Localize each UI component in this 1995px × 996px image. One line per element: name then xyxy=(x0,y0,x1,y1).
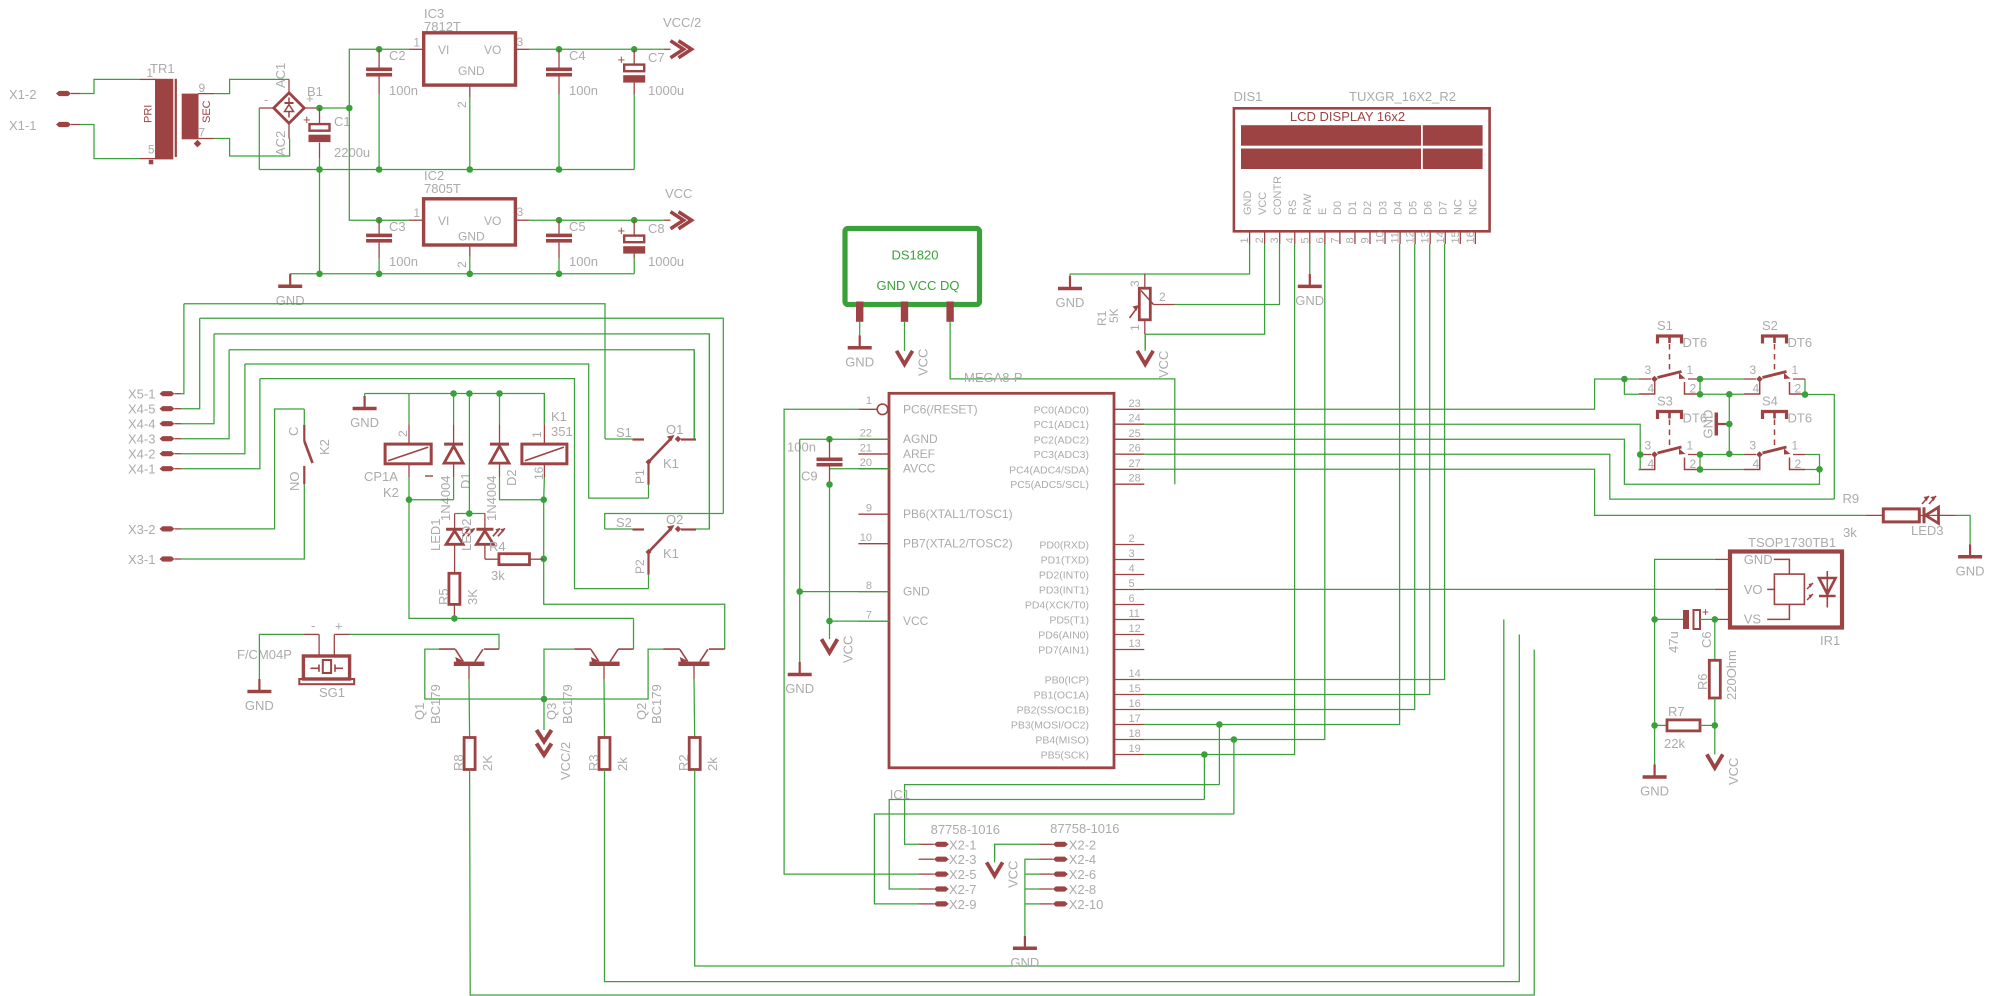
LCD pin 1 GND xyxy=(1249,231,1251,244)
pin 17 stub xyxy=(1114,724,1144,726)
buzzer SG1 xyxy=(304,633,319,635)
resistor R8 xyxy=(464,738,475,770)
connector pin X4-5 xyxy=(160,406,175,411)
connector pin X4-2 xyxy=(160,451,175,456)
svg-text:PB2(SS/OC1B): PB2(SS/OC1B) xyxy=(1017,705,1089,717)
junction xyxy=(466,510,473,517)
svg-text:14: 14 xyxy=(1129,668,1141,680)
svg-text:100n: 100n xyxy=(389,83,418,98)
wire X3-1 to K2 NO xyxy=(181,484,304,559)
svg-text:2k: 2k xyxy=(615,757,630,771)
wire PC0 to S1 xyxy=(1144,379,1624,409)
junction GND pin8 xyxy=(796,588,803,595)
supply arrow VCC TSOP xyxy=(1714,725,1716,754)
wire Q2 emitter xyxy=(544,649,664,699)
svg-text:7: 7 xyxy=(866,610,872,622)
wire X4-1 xyxy=(181,379,260,469)
svg-text:D2: D2 xyxy=(1362,201,1374,215)
svg-text:GND: GND xyxy=(845,354,874,369)
junction C8 top xyxy=(631,217,638,224)
connector pin X1-2 xyxy=(56,91,71,96)
junction xyxy=(1726,451,1733,458)
svg-text:220Ohm: 220Ohm xyxy=(1724,650,1739,700)
svg-text:S2: S2 xyxy=(616,515,632,530)
svg-text:C7: C7 xyxy=(648,50,665,65)
capacitor C5 xyxy=(558,220,560,233)
svg-text:1: 1 xyxy=(1128,324,1142,331)
svg-text:3K: 3K xyxy=(465,589,480,605)
svg-text:87758-1016: 87758-1016 xyxy=(931,822,1000,837)
svg-text:R8: R8 xyxy=(451,754,466,771)
resistor R2 xyxy=(689,738,700,770)
wire net X4-1 run xyxy=(260,379,649,589)
connector pin X1-1 xyxy=(56,122,71,127)
pin TSOP VO xyxy=(1715,588,1730,590)
svg-text:3: 3 xyxy=(1750,439,1757,453)
svg-text:Q2: Q2 xyxy=(634,703,649,720)
svg-text:E: E xyxy=(1317,208,1329,215)
pin 19 stub xyxy=(1114,754,1144,756)
svg-text:15: 15 xyxy=(1450,231,1462,243)
junction MOSI xyxy=(1216,721,1223,728)
svg-text:9: 9 xyxy=(866,503,872,515)
svg-text:6: 6 xyxy=(1314,237,1326,243)
junction xyxy=(316,166,323,173)
svg-text:PD5(T1): PD5(T1) xyxy=(1049,615,1089,627)
svg-text:PD6(AIN0): PD6(AIN0) xyxy=(1038,630,1089,642)
wire X2 ground column xyxy=(1025,859,1040,936)
svg-text:P1: P1 xyxy=(633,469,647,484)
transistor Q3 BC179 xyxy=(618,648,633,650)
pin 9 stub xyxy=(858,513,889,515)
pin 26 stub xyxy=(1114,453,1144,455)
svg-text:VCC/2: VCC/2 xyxy=(663,15,701,30)
svg-text:R5: R5 xyxy=(436,588,451,605)
wire S3 right jumper xyxy=(1699,455,1701,470)
svg-text:12: 12 xyxy=(1405,231,1417,243)
svg-text:1: 1 xyxy=(1792,363,1799,377)
wire AVCC to C9 xyxy=(830,468,890,470)
wire O1 riser xyxy=(693,350,695,439)
svg-text:AVCC: AVCC xyxy=(903,462,936,476)
svg-text:8: 8 xyxy=(866,580,872,592)
voltage regulator IC2 7805T xyxy=(409,219,424,221)
wire buzzer plus to Q1 xyxy=(350,634,499,649)
ground symbol power xyxy=(289,274,291,287)
pin 1 PC6/RESET circle xyxy=(877,404,888,415)
connector pin X4-1 xyxy=(160,466,175,471)
wire net X4-3 run xyxy=(229,350,694,439)
svg-text:S4: S4 xyxy=(1762,394,1778,409)
svg-text:C5: C5 xyxy=(569,219,586,234)
svg-text:S3: S3 xyxy=(1657,394,1673,409)
svg-text:15: 15 xyxy=(1129,683,1141,695)
svg-text:DS1820: DS1820 xyxy=(892,248,939,263)
junction xyxy=(541,696,548,703)
svg-text:Q3: Q3 xyxy=(544,703,559,720)
wire GND riser buttons xyxy=(1728,394,1730,454)
svg-text:GND: GND xyxy=(903,585,930,599)
svg-text:1: 1 xyxy=(530,431,544,438)
connector pin X2-4 xyxy=(1053,857,1068,862)
svg-text:47u: 47u xyxy=(1666,631,1681,653)
svg-text:R2: R2 xyxy=(676,754,691,771)
svg-text:DT6: DT6 xyxy=(1683,335,1708,350)
LCD pin 3 CONTR xyxy=(1279,231,1281,244)
connector pin X2-6 xyxy=(1053,872,1068,877)
pin 21 stub xyxy=(858,453,889,455)
pin 18 stub xyxy=(1114,739,1144,741)
wire MISO drop xyxy=(1233,740,1235,815)
svg-text:CP1A: CP1A xyxy=(364,469,398,484)
wire S1 jumper xyxy=(1624,378,1638,380)
svg-text:BC179: BC179 xyxy=(649,684,664,724)
wire GND rails link xyxy=(319,170,321,274)
svg-text:1: 1 xyxy=(866,395,872,407)
pin 7 stub xyxy=(858,620,889,622)
svg-text:PB5(SCK): PB5(SCK) xyxy=(1041,750,1089,762)
svg-text:VCC: VCC xyxy=(1726,758,1741,785)
junction raw DC xyxy=(346,105,353,112)
svg-text:VCC: VCC xyxy=(665,186,692,201)
svg-text:PD2(INT0): PD2(INT0) xyxy=(1039,570,1089,582)
LCD pin 11 D4 xyxy=(1399,231,1401,244)
svg-text:PD1(TXD): PD1(TXD) xyxy=(1041,555,1089,567)
sensor DS1820 xyxy=(845,229,980,305)
wire VI rail to IC3 pin1 xyxy=(379,48,409,50)
wire PC1 to S3 xyxy=(1144,424,1640,454)
svg-text:3k: 3k xyxy=(1843,525,1857,540)
junction xyxy=(406,496,413,503)
wire LCD pin11 D4 to PB3 xyxy=(1144,244,1399,725)
wire D1 bottom row xyxy=(409,499,454,501)
ground symbol LED3 xyxy=(1969,544,1971,557)
svg-text:VCC: VCC xyxy=(916,349,931,376)
wire LCD pin3 CONTR to R1 wiper xyxy=(1174,244,1279,305)
svg-text:R9: R9 xyxy=(1843,491,1860,506)
connector pin X2-10 xyxy=(1053,901,1068,906)
LCD pin 16 NC xyxy=(1474,231,1476,244)
svg-text:8: 8 xyxy=(1344,237,1356,243)
wire RESET to X2-5 xyxy=(784,409,919,874)
ground symbol DS1820 xyxy=(859,335,861,348)
svg-text:LED3: LED3 xyxy=(1911,523,1944,538)
connector pin X3-1 xyxy=(160,556,175,561)
svg-text:3: 3 xyxy=(1750,363,1757,377)
junction xyxy=(540,496,547,503)
junction C5 top xyxy=(556,217,563,224)
wire pin8 gnd xyxy=(800,591,889,593)
svg-text:2: 2 xyxy=(455,261,469,268)
svg-text:SG1: SG1 xyxy=(319,685,345,700)
pin 10 stub xyxy=(858,543,889,545)
svg-text:PC2(ADC2): PC2(ADC2) xyxy=(1034,434,1089,446)
svg-text:16: 16 xyxy=(1465,231,1477,243)
wire S2 pin2 to PC3 net xyxy=(1805,395,1834,500)
junction xyxy=(826,481,833,488)
svg-text:3: 3 xyxy=(517,35,524,49)
wire X1-1 to TR1 pin5 xyxy=(80,125,140,159)
wire R1 pin1 vcc xyxy=(1144,334,1146,349)
svg-text:C2: C2 xyxy=(389,48,406,63)
svg-text:351: 351 xyxy=(551,424,573,439)
svg-text:1: 1 xyxy=(1687,439,1694,453)
svg-text:MEGA8-P: MEGA8-P xyxy=(964,370,1023,385)
wire K1 net down to Q2 xyxy=(544,500,725,649)
svg-text:1: 1 xyxy=(413,36,420,50)
svg-text:GND: GND xyxy=(1010,955,1039,970)
svg-text:F/CM04P: F/CM04P xyxy=(237,647,292,662)
wire SCK drop xyxy=(1203,755,1205,800)
pin TSOP VS xyxy=(1715,618,1730,620)
svg-text:X4-5: X4-5 xyxy=(128,402,155,417)
svg-text:VCC: VCC xyxy=(1156,351,1171,378)
svg-text:RS: RS xyxy=(1287,200,1299,215)
ground symbol buzzer xyxy=(258,679,260,692)
LCD pin 10 D3 xyxy=(1384,231,1386,244)
supply arrow VCC MCU xyxy=(829,621,831,639)
svg-text:PC1(ADC1): PC1(ADC1) xyxy=(1034,419,1089,431)
pin 25 stub xyxy=(1114,438,1144,440)
wire AREF stub xyxy=(858,453,889,455)
svg-text:+: + xyxy=(618,223,626,238)
svg-text:VCC: VCC xyxy=(841,636,856,663)
ground symbol relay rail xyxy=(364,394,366,397)
svg-text:19: 19 xyxy=(1129,743,1141,755)
svg-text:3: 3 xyxy=(1128,280,1142,287)
svg-text:2: 2 xyxy=(455,101,469,108)
svg-text:D4: D4 xyxy=(1392,201,1404,215)
connector pin X2-3 xyxy=(934,857,949,862)
svg-text:NO: NO xyxy=(287,472,302,492)
svg-text:4: 4 xyxy=(1284,237,1296,243)
svg-text:DT6: DT6 xyxy=(1788,411,1813,426)
svg-text:VCC: VCC xyxy=(1257,192,1269,215)
svg-text:X4-1: X4-1 xyxy=(128,462,155,477)
svg-text:TR1: TR1 xyxy=(150,61,175,76)
svg-text:X2-2: X2-2 xyxy=(1069,837,1096,852)
svg-text:GND: GND xyxy=(1744,552,1773,567)
svg-text:PB6(XTAL1/TOSC1): PB6(XTAL1/TOSC1) xyxy=(903,507,1013,521)
svg-text:VCC/2: VCC/2 xyxy=(558,742,573,780)
svg-text:100n: 100n xyxy=(389,254,418,269)
capacitor C6 xyxy=(1655,618,1683,620)
transistor Q1 BC179 xyxy=(484,648,499,650)
svg-text:S1: S1 xyxy=(616,425,632,440)
svg-text:D3: D3 xyxy=(1377,201,1389,215)
svg-text:TUXGR_16X2_R2: TUXGR_16X2_R2 xyxy=(1349,89,1456,104)
svg-text:PC6(/RESET): PC6(/RESET) xyxy=(903,402,978,416)
svg-text:GND: GND xyxy=(458,64,485,78)
wire S1 right jumper xyxy=(1700,379,1744,394)
svg-text:IR1: IR1 xyxy=(1820,633,1840,648)
wire S4 pin1 drop xyxy=(1805,455,1820,470)
LCD pin 15 NC xyxy=(1459,231,1461,244)
svg-text:24: 24 xyxy=(1129,413,1141,425)
svg-text:22: 22 xyxy=(860,428,872,440)
wire LCD pin12 D5 to PB2 xyxy=(1144,244,1414,710)
connector pin X2-5 xyxy=(934,872,949,877)
svg-text:1: 1 xyxy=(146,66,153,80)
wire X2-7 to SCK xyxy=(889,800,1204,890)
potentiometer R1 5K xyxy=(1144,274,1146,288)
resistor R7 xyxy=(1655,724,1667,726)
svg-text:17: 17 xyxy=(1129,713,1141,725)
resistor R4 xyxy=(485,558,499,560)
wire LCD pin13 D6 to PB1 xyxy=(1144,244,1429,695)
wire DS1820 DQ to PC5 xyxy=(950,322,1175,484)
svg-text:11: 11 xyxy=(1390,232,1402,243)
pin 6 stub xyxy=(1114,604,1144,606)
svg-text:X2-7: X2-7 xyxy=(949,882,976,897)
wire Q3 emitter xyxy=(544,649,574,699)
svg-text:K1: K1 xyxy=(663,546,679,561)
wire raw DC up to IC3 VI rail xyxy=(349,49,379,108)
wire Q2 base to R2 xyxy=(693,679,696,737)
svg-text:X3-1: X3-1 xyxy=(128,552,155,567)
svg-text:18: 18 xyxy=(1129,728,1141,740)
wire LCD pin2 VCC to R1 xyxy=(1145,244,1264,334)
connector pin X4-3 xyxy=(160,436,175,441)
svg-text:PD0(RXD): PD0(RXD) xyxy=(1039,540,1089,552)
resistor R9 xyxy=(1866,514,1883,516)
svg-text:X4-2: X4-2 xyxy=(128,447,155,462)
svg-text:5: 5 xyxy=(148,143,155,157)
junction VCC pin7 xyxy=(826,618,833,625)
svg-text:CONTR: CONTR xyxy=(1272,176,1284,215)
pin 14 stub xyxy=(1114,679,1144,681)
wire X3-2 to K2 C xyxy=(181,409,304,529)
wire IC2 GND pin2 to rail xyxy=(469,257,471,274)
junction xyxy=(1697,451,1704,458)
svg-text:X2-10: X2-10 xyxy=(1069,897,1104,912)
svg-text:PB1(OC1A): PB1(OC1A) xyxy=(1034,690,1089,702)
wire B1 minus to GND rail xyxy=(258,108,260,170)
svg-text:GND: GND xyxy=(1295,293,1324,308)
junction xyxy=(450,390,457,397)
junction xyxy=(556,166,563,173)
wire Q1 emitter xyxy=(425,649,544,699)
supply arrow VCC/2 transistors xyxy=(543,699,545,730)
pin 4 stub xyxy=(1114,574,1144,576)
connector pin X5-1 xyxy=(160,391,175,396)
wire net X4-4 run xyxy=(214,334,709,529)
wire S3 jumper xyxy=(1639,455,1641,470)
svg-text:X2-3: X2-3 xyxy=(949,852,976,867)
junction C6 left xyxy=(1651,616,1658,623)
svg-text:K1: K1 xyxy=(663,456,679,471)
junction xyxy=(556,271,563,278)
wire LCD pin1 to GND xyxy=(1070,244,1250,274)
svg-text:AC1: AC1 xyxy=(273,63,288,88)
wire PC4 to R9 xyxy=(1144,469,1866,515)
svg-text:100n: 100n xyxy=(787,440,816,455)
diode D2 1N4004 xyxy=(499,394,501,425)
pin 11 stub xyxy=(1114,619,1144,621)
svg-text:LED1: LED1 xyxy=(428,518,443,551)
svg-text:K2: K2 xyxy=(383,485,399,500)
wire IC3 VO rail xyxy=(529,48,663,50)
wire net X5-1 run xyxy=(184,304,605,439)
pin 5 stub xyxy=(1114,589,1144,591)
connector pin X2-2 xyxy=(1053,842,1068,847)
junction xyxy=(1697,391,1704,398)
wire X2-1 to MOSI xyxy=(905,785,1220,845)
wire X2-2 VCC xyxy=(995,844,1040,858)
wire LCD pin6 E to PB4 xyxy=(1144,244,1325,740)
voltage regulator IC3 7812T xyxy=(409,48,424,50)
pin 13 stub xyxy=(1114,649,1144,651)
svg-text:GND: GND xyxy=(276,293,305,308)
LCD pin 9 D2 xyxy=(1369,231,1371,244)
supply arrow VCC R1 xyxy=(1144,334,1146,351)
pin 24 stub xyxy=(1114,423,1144,425)
svg-text:5: 5 xyxy=(1129,578,1135,590)
GND rail lower xyxy=(290,273,634,275)
svg-text:PC5(ADC5/SCL): PC5(ADC5/SCL) xyxy=(1010,479,1089,491)
svg-text:C1: C1 xyxy=(334,114,351,129)
capacitor C9 xyxy=(800,438,889,440)
ground symbol buttons xyxy=(1716,423,1729,425)
svg-text:D2: D2 xyxy=(504,469,519,486)
svg-text:13: 13 xyxy=(1420,231,1432,243)
svg-text:C6: C6 xyxy=(1699,631,1714,648)
svg-text:NC: NC xyxy=(1453,199,1465,215)
junction xyxy=(376,271,383,278)
wire IC3 GND pin2 to rail xyxy=(469,97,471,170)
svg-text:6: 6 xyxy=(1129,593,1135,605)
wire TR1 pin7 to bridge AC2 xyxy=(214,139,289,157)
svg-text:14: 14 xyxy=(1435,231,1447,243)
svg-text:X2-4: X2-4 xyxy=(1069,852,1096,867)
junction xyxy=(467,166,474,173)
wire Q3 base to R3 xyxy=(603,679,606,737)
svg-text:23: 23 xyxy=(1129,398,1141,410)
svg-text:GND: GND xyxy=(350,415,379,430)
svg-text:PD3(INT1): PD3(INT1) xyxy=(1039,585,1089,597)
pin 27 stub xyxy=(1114,468,1144,470)
svg-text:7: 7 xyxy=(199,126,206,140)
connector pin X2-9 xyxy=(934,901,949,906)
relay contact K2 xyxy=(303,409,305,425)
junction R7 right xyxy=(1712,722,1719,729)
svg-text:GND VCC DQ: GND VCC DQ xyxy=(876,278,959,293)
wire PC3 to S2 xyxy=(1144,454,1834,499)
wire LED3 to GND xyxy=(1955,515,1970,544)
capacitor C3 xyxy=(378,220,380,233)
svg-text:D5: D5 xyxy=(1407,201,1419,215)
wire net X4-5 run xyxy=(200,318,724,513)
svg-text:SEC: SEC xyxy=(201,100,213,123)
wire K1 coil pin16 down xyxy=(543,477,546,500)
svg-text:C8: C8 xyxy=(648,221,665,236)
wire B1 plus node xyxy=(320,107,350,109)
wire IC2 VO rail xyxy=(515,219,529,221)
junction xyxy=(540,556,547,563)
wire buzzer minus to GND xyxy=(259,634,304,679)
svg-text:27: 27 xyxy=(1129,458,1141,470)
connector pin X2-7 xyxy=(934,886,949,891)
wire X4-5 xyxy=(181,318,200,408)
svg-text:R6: R6 xyxy=(1695,673,1710,690)
junction VS xyxy=(1712,616,1719,623)
wire LCD pin4 RS to PB5 xyxy=(1144,244,1294,755)
LCD pin 2 VCC xyxy=(1264,231,1266,244)
pin 3 stub xyxy=(1114,559,1144,561)
svg-text:X2-6: X2-6 xyxy=(1069,867,1096,882)
svg-text:3: 3 xyxy=(1645,439,1652,453)
svg-text:K1: K1 xyxy=(551,409,567,424)
